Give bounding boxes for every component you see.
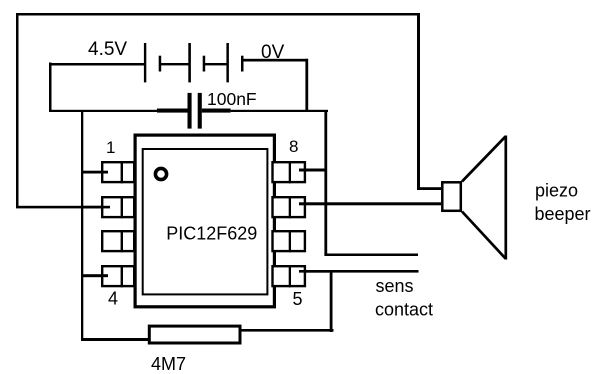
svg-text:0V: 0V — [261, 42, 285, 63]
svg-text:5: 5 — [293, 289, 303, 309]
svg-text:4.5V: 4.5V — [88, 39, 127, 60]
svg-text:4: 4 — [108, 289, 118, 309]
svg-text:8: 8 — [289, 137, 298, 156]
svg-text:1: 1 — [106, 138, 115, 157]
svg-text:100nF: 100nF — [207, 89, 257, 109]
svg-text:contact: contact — [375, 300, 433, 320]
svg-text:beeper: beeper — [535, 204, 591, 224]
svg-text:sens: sens — [376, 276, 414, 296]
svg-text:piezo: piezo — [535, 181, 578, 201]
svg-text:4M7: 4M7 — [151, 354, 186, 374]
svg-text:PIC12F629: PIC12F629 — [166, 224, 257, 244]
